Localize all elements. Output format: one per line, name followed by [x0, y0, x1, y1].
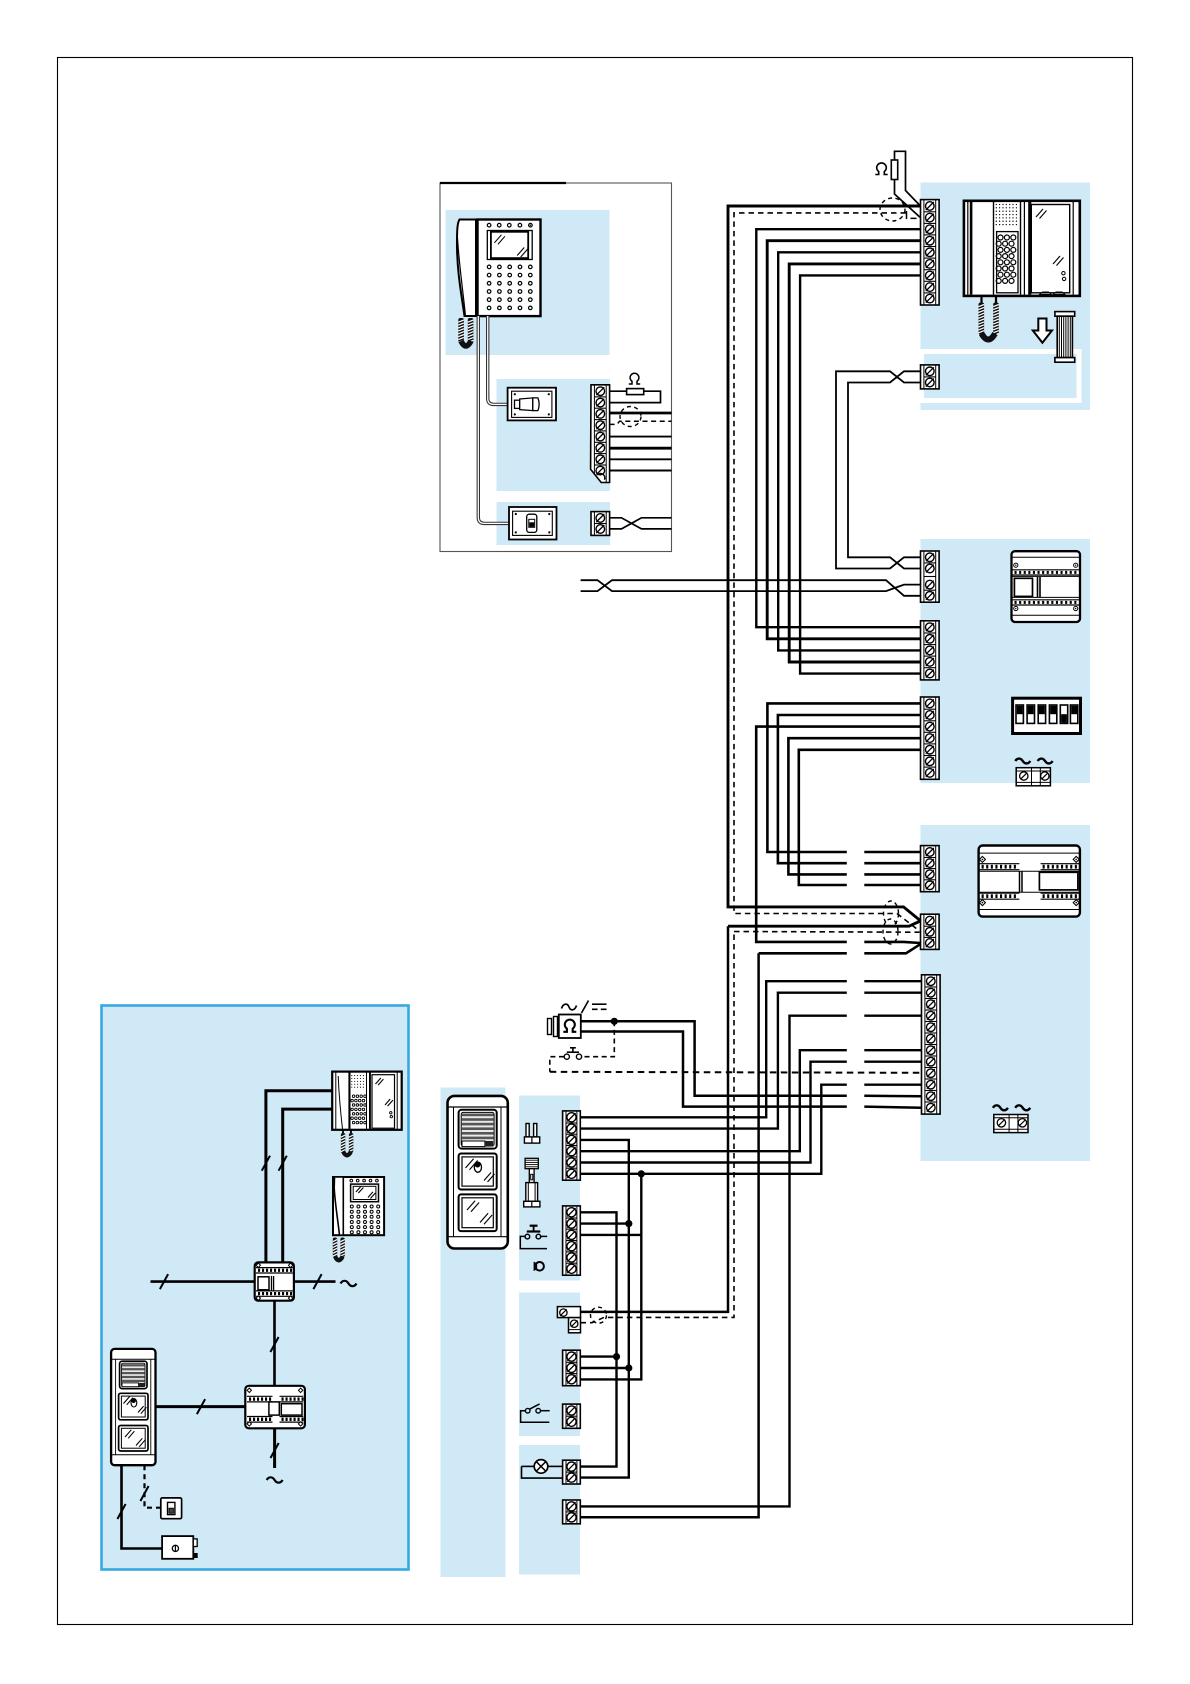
DIP switch S1 [1013, 698, 1081, 733]
panel: door station sub-panel 2 [519, 1293, 580, 1437]
panel: audio door phone blue area (top right) [921, 183, 1091, 411]
data jack on socket 2 [527, 514, 537, 532]
wire dashed to X11-2 lower [734, 931, 920, 934]
riser wire M3 right [294, 1280, 336, 1283]
wire lock L1 top to X12-11 [581, 1021, 847, 1096]
wire door B2-1 down to B6-1 [580, 1212, 616, 1466]
riser wire 1 [266, 1091, 332, 1264]
AC mark F1 left [1015, 759, 1030, 764]
wire X1-4 dashed stub [610, 421, 672, 424]
terminal block X1 (apartment 8-way, torn bottom) [591, 385, 610, 483]
terminal block X6 (4-way) [921, 551, 940, 602]
wire to X11-3 lower part2 [864, 944, 920, 953]
audio handset icon U4 [333, 1177, 384, 1235]
junction B4-1 [613, 1353, 620, 1360]
resistor R2 [891, 160, 897, 180]
DIN module M1 (switching unit) [1012, 551, 1081, 622]
wire door B2-2 stub [580, 1222, 629, 1224]
DIN module M2 (power supply) [979, 846, 1080, 917]
terminal block X10 (4-way) [921, 846, 940, 892]
wire lock L1 top part2 [864, 1095, 921, 1098]
panel: wall socket 1 blue area [497, 379, 611, 491]
installation arrow [1033, 319, 1052, 343]
cable mark door-M4 [197, 1399, 205, 1414]
wire bus L1 (X3-1 riser) [728, 206, 921, 921]
long pair from apartment riser to X6-3/4 [581, 580, 921, 596]
wire X12-8 part2 [864, 1060, 921, 1062]
wire R2 top lead to X3-1 [895, 151, 921, 205]
electric lock L1 [548, 1015, 581, 1039]
wire X1-1 to R1 loop to X1-2 [610, 391, 661, 402]
light switch plate icon [161, 1498, 182, 1519]
cable mark DS2 down [117, 1504, 125, 1519]
panel: switching module blue area (middle right) [921, 539, 1091, 783]
AC mark F2 right [1015, 1105, 1030, 1110]
wire door B2-3 stub [580, 1234, 641, 1236]
cable from U1 to socket 2 [478, 316, 527, 523]
terminal block X12 (12-way) [922, 975, 941, 1114]
wire door B1-6 chain down [580, 1174, 641, 1380]
wire bus L2 dashed (X3 area to X5-2) [734, 213, 920, 931]
terminal block X7 (5-way) [921, 621, 940, 680]
wire bus L4 [767, 241, 920, 639]
riser wire M3 left [151, 1280, 255, 1283]
riser wire 2 [283, 1109, 333, 1263]
cable mark M3 left [160, 1274, 168, 1289]
riser wire dashed DS2 to switch [145, 1465, 161, 1508]
terminal block X3 (riser 9-way) [921, 200, 940, 305]
terminal block X11 (3-way) [921, 914, 940, 949]
wall socket plate 2 [509, 507, 557, 540]
wire R2 bottom lead to X3-2 [895, 180, 921, 218]
terminal block B3 (L-shaped 2-way) [557, 1307, 580, 1333]
door station icon DS2 [111, 1349, 155, 1465]
wire dashed door LB-2 up to X11-2 [581, 932, 735, 1323]
panel: power supply blue area (bottom right) [921, 825, 1091, 1161]
crossed pair from X2 [610, 518, 672, 529]
panel: apartment kit white box [440, 183, 672, 552]
wire up-pair to X11-1 lower [728, 921, 920, 926]
video intercom icon U3 [332, 1072, 402, 1130]
terminal block B1 (door 6-way) [563, 1111, 581, 1180]
icon: 2-pin connector [524, 1124, 539, 1144]
junction B1-6 [638, 1170, 645, 1177]
twisted pair circle at door LB [591, 1307, 607, 1323]
wire lock L1 bottom part2 [864, 1107, 921, 1108]
twisted pair circle upper at X11 [884, 901, 899, 926]
cable mark riser 2 [279, 1156, 287, 1171]
terminal block B2 (door 6-way lower) [563, 1206, 581, 1275]
junction B4-2 [625, 1364, 632, 1371]
resistor R1 label Ω [629, 373, 640, 384]
audio door phone unit U2 [964, 201, 1080, 296]
wire X12-7 part2 [864, 1049, 921, 1051]
wire X12-4 part2 [864, 1015, 921, 1017]
wire bus L7 [800, 275, 920, 673]
terminal block B5 (door 2-way switch) [563, 1404, 581, 1428]
icon: key [535, 1262, 544, 1271]
twisted pair circle lower at X11 [883, 919, 898, 944]
junction B2-2 [625, 1220, 632, 1227]
terminal block X4 (riser 2-way) [921, 365, 940, 389]
cable mark M3 down [270, 1337, 278, 1352]
panel: white inner frame (top right) [922, 352, 1080, 401]
icon: lock striker/actuator [524, 1158, 540, 1207]
cable mark on dashed [140, 1486, 148, 1501]
wire door B4-1 stub [580, 1355, 616, 1357]
panel: door station sub-panel 1 [519, 1096, 580, 1281]
wire X8-1 to X10-1 [767, 703, 920, 852]
wire X8-5 to X10-4 [799, 750, 921, 885]
wire X12-4 to lock supply B7-1 [580, 1016, 847, 1507]
fuse holder F1 [1016, 768, 1050, 786]
icon: lamp [522, 1460, 563, 1479]
wire X12-2 part2 [864, 992, 921, 994]
resistor R2 label Ω [875, 163, 887, 175]
panel: riser diagram blue panel (bottom left) [102, 1006, 409, 1570]
cable mark riser 1 [262, 1156, 270, 1171]
wire X8-4 to X10-3 [788, 738, 920, 874]
cable from U1 to socket 1 plug [488, 316, 515, 404]
panel: door station strip blue area (bottom middle) [441, 1088, 506, 1578]
wire lock L1 bottom to X12-12 [581, 1032, 847, 1107]
terminal block B7 (door 2-way bottom) [563, 1500, 581, 1524]
AC mark M4 down [267, 1477, 283, 1482]
coiled cords U4 [333, 1238, 337, 1258]
twisted pair circle on X1 [620, 407, 641, 427]
wire X12-1 part2 [864, 980, 921, 982]
icon: switch contact [521, 1404, 550, 1422]
wire X8-3 to X11-3a part2 [864, 942, 920, 943]
AC mark F2 left [993, 1105, 1008, 1110]
wire X8-2 to X10-2 [778, 715, 921, 863]
wire X8-3 to X11-3a [756, 727, 920, 942]
label AC/DC for lock [562, 1004, 577, 1010]
wire X8-5 to X10-4 part2 [864, 884, 920, 887]
video handset unit U1 [457, 220, 541, 317]
icon: pushbutton [520, 1226, 547, 1249]
wire door B1-3 down chain [580, 1140, 629, 1478]
wire X1-6 [610, 447, 672, 450]
wire bus L3 [756, 229, 920, 627]
wire X12-10 part2 [864, 1083, 921, 1085]
riser wire door to M4 [156, 1405, 246, 1408]
wire bus L5 [778, 252, 920, 650]
wire door LB-1 up to X11-1 [581, 926, 729, 1312]
riser wire M4 down [273, 1428, 276, 1468]
wire X12-8 from door B1-5 [580, 1062, 847, 1163]
wire X12-1 from door B1-1 [580, 981, 847, 1117]
twisted pair circle near X3 [880, 198, 905, 221]
door station panel DS1 [448, 1096, 508, 1249]
riser wire M3 down to M4 [273, 1301, 276, 1386]
wire X12-2 from door B1-2 [580, 993, 847, 1129]
coiled cords U3 [342, 1130, 344, 1133]
handset coiled cords U2 [980, 296, 982, 303]
terminal block B6 (door 2-way lamp) [563, 1460, 581, 1484]
surface lock box icon [162, 1536, 198, 1559]
AC mark M3 right [341, 1281, 357, 1286]
wall socket plate 1 [508, 388, 556, 421]
wire dashed PB1 to X12-9 [550, 1072, 922, 1073]
wire X1-3 [610, 412, 672, 415]
handset coiled cord U1 [458, 318, 464, 343]
panel: video handset blue area [446, 210, 610, 355]
riser DIN module icon M3 [255, 1262, 294, 1300]
dashed end mark near X3-2 [907, 211, 917, 219]
wire X8-1 to X10-1 part2 [864, 851, 920, 854]
wire to X11-3 lower [759, 952, 847, 955]
wire X12-10 from door B1-6 [580, 1085, 847, 1174]
AC mark F1 right [1038, 759, 1053, 764]
wire door B4-2 stub [580, 1367, 629, 1369]
terminal block X8 (7-way) [921, 697, 940, 779]
wire X1-5 [610, 436, 672, 438]
ribbon cable icon [1055, 312, 1075, 363]
panel: wall socket 2 blue area [497, 502, 611, 545]
wire door B7-2 up to X11-3 [580, 953, 758, 1517]
plug connector on socket 1 [515, 398, 540, 411]
fuse holder F2 [994, 1115, 1028, 1133]
wire X8-4 to X10-3 part2 [864, 873, 920, 876]
terminal block B4 (door 3-way) [563, 1350, 581, 1386]
wire bus L6 [789, 264, 920, 662]
wire X8-2 to X10-2 part2 [864, 862, 920, 865]
riser DIN module icon M4 [245, 1386, 305, 1429]
resistor R1 (apartment) [627, 389, 644, 395]
riser wire DS2 to lockbox [122, 1465, 163, 1548]
wire X1-7 [610, 458, 672, 460]
wire dashed PB1 to junction [550, 1021, 615, 1072]
terminal block X2 (apartment 2-way) [591, 512, 610, 536]
wire X1-8 [610, 470, 672, 472]
wire X12-7 from door B1-4 [580, 1050, 847, 1151]
cable mark M4 down [271, 1443, 279, 1458]
cable mark M3 right [313, 1274, 321, 1289]
pushbutton PB1 (lock release) [564, 1048, 581, 1059]
junction lock wire [611, 1018, 618, 1025]
crossed pair X4 to X6 upper [836, 371, 921, 568]
panel: door station sub-panel 3 [519, 1445, 580, 1575]
